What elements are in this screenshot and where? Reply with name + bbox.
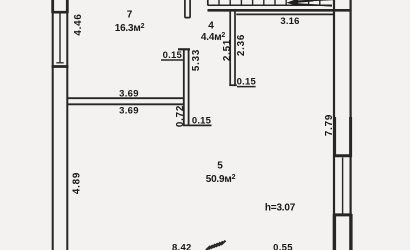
stairs flight separation line (208, 4, 332, 6)
window W1 middle line (59, 14, 61, 63)
right lower pier left side (333, 214, 336, 250)
right lower pier top cap (333, 213, 351, 216)
svg-text:0.55: 0.55 (273, 242, 293, 250)
svg-text:2.51: 2.51 (222, 39, 233, 61)
window W2 middle line (342, 158, 344, 214)
svg-text:3.69: 3.69 (119, 106, 139, 117)
room4 right wall left line (229, 11, 231, 85)
center stub top cap (178, 48, 190, 50)
stairs stringer thick line (208, 9, 352, 12)
dim 0.15 underline upper (161, 59, 184, 61)
bottom diagonal hatch mark (206, 241, 226, 250)
stair arrow shaft upper (296, 0, 334, 1)
wall left outer line (52, 0, 54, 250)
svg-text:0.15: 0.15 (192, 115, 212, 126)
stair treads (219, 0, 320, 5)
right pier side emphasis right (349, 117, 352, 157)
right pier side emphasis left (333, 117, 336, 157)
stairs left edge (207, 0, 209, 6)
svg-text:3.16: 3.16 (280, 16, 299, 27)
stair arrow shaft lower (296, 4, 332, 6)
right lower pier right side (349, 214, 352, 250)
center stub wall left line (183, 49, 185, 126)
dim 0.15 underline room4 (237, 86, 256, 88)
wall right outer line (350, 0, 352, 250)
svg-text:8.42: 8.42 (172, 242, 192, 250)
svg-text:h=3.07: h=3.07 (265, 203, 296, 214)
stair direction arrow head (287, 0, 298, 6)
wall left top pier cap (52, 11, 69, 14)
door-side stub bar (185, 0, 190, 18)
svg-text:7.79: 7.79 (324, 114, 335, 136)
wall right inner line (333, 0, 335, 250)
room4 right wall right line (234, 11, 236, 85)
svg-text:7: 7 (127, 10, 133, 21)
svg-text:16.3м2: 16.3м2 (115, 23, 145, 34)
svg-text:2.36: 2.36 (236, 34, 247, 56)
interior wall top line (67, 97, 184, 99)
window W1 bottom tick (56, 62, 63, 64)
stair arrow shaft mid (297, 1, 313, 2)
svg-text:0.15: 0.15 (237, 76, 257, 87)
room4 wall bottom cap (229, 84, 237, 86)
svg-text:3.69: 3.69 (119, 89, 139, 100)
wall left top pier side emphasis (51, 0, 54, 13)
svg-text:5.33: 5.33 (191, 49, 202, 71)
svg-text:4.89: 4.89 (71, 172, 82, 194)
wall left inner line (66, 0, 68, 250)
wall left pier cap (52, 65, 69, 68)
interior wall bottom line (67, 103, 184, 105)
svg-text:4: 4 (208, 21, 214, 32)
center stub wall right line (188, 49, 190, 126)
svg-text:0.72: 0.72 (175, 105, 186, 127)
center stub bottom cap and 0.15 underline (183, 124, 212, 126)
corridor top wall line (236, 13, 334, 15)
svg-text:5: 5 (217, 160, 223, 171)
svg-text:4.46: 4.46 (73, 13, 84, 35)
right pier bottom cap (333, 154, 351, 157)
svg-text:50.9м2: 50.9м2 (206, 174, 236, 185)
svg-text:0.15: 0.15 (163, 50, 183, 61)
